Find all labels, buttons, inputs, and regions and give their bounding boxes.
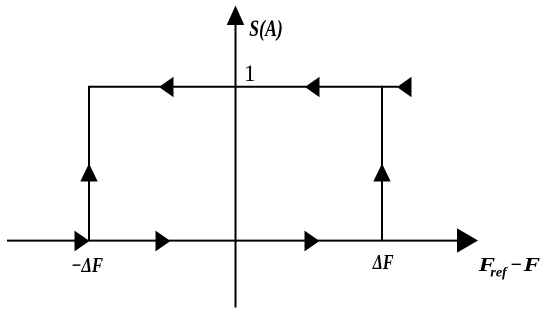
left vertical branch at -ΔF — [88, 86, 90, 241]
left-pointing arrow at right end of top line — [397, 77, 412, 97]
svg-text:S(A): S(A) — [249, 16, 282, 41]
right vertical branch at ΔF — [381, 86, 383, 241]
label F_ref - F — [477, 254, 540, 281]
right-pointing arrow on x-axis at -ΔF junction — [75, 231, 90, 252]
label 1 — [244, 61, 256, 86]
up arrow on left branch — [80, 164, 97, 182]
x-axis horizontal line — [7, 240, 459, 242]
right-pointing arrow on x-axis (third) — [305, 231, 320, 252]
svg-text:1: 1 — [244, 61, 256, 86]
label ΔF — [372, 250, 394, 274]
left-pointing arrow on top line (left) — [159, 77, 174, 97]
y-axis top arrowhead — [227, 6, 245, 26]
right-pointing arrow on x-axis (second) — [156, 231, 171, 252]
left-pointing arrow on top line (middle) — [305, 77, 320, 97]
svg-text:−: − — [510, 254, 522, 276]
y-axis S(A) vertical line — [235, 20, 237, 308]
up arrow on right branch — [373, 164, 390, 182]
top hysteresis line y=1 — [89, 86, 398, 88]
label S(A) — [249, 16, 282, 41]
svg-text:F: F — [522, 254, 541, 276]
label -ΔF — [71, 253, 103, 277]
svg-text:−ΔF: −ΔF — [71, 253, 103, 277]
svg-text:ref: ref — [490, 266, 508, 281]
svg-text:ΔF: ΔF — [372, 250, 394, 274]
x-axis end arrowhead — [457, 228, 478, 253]
